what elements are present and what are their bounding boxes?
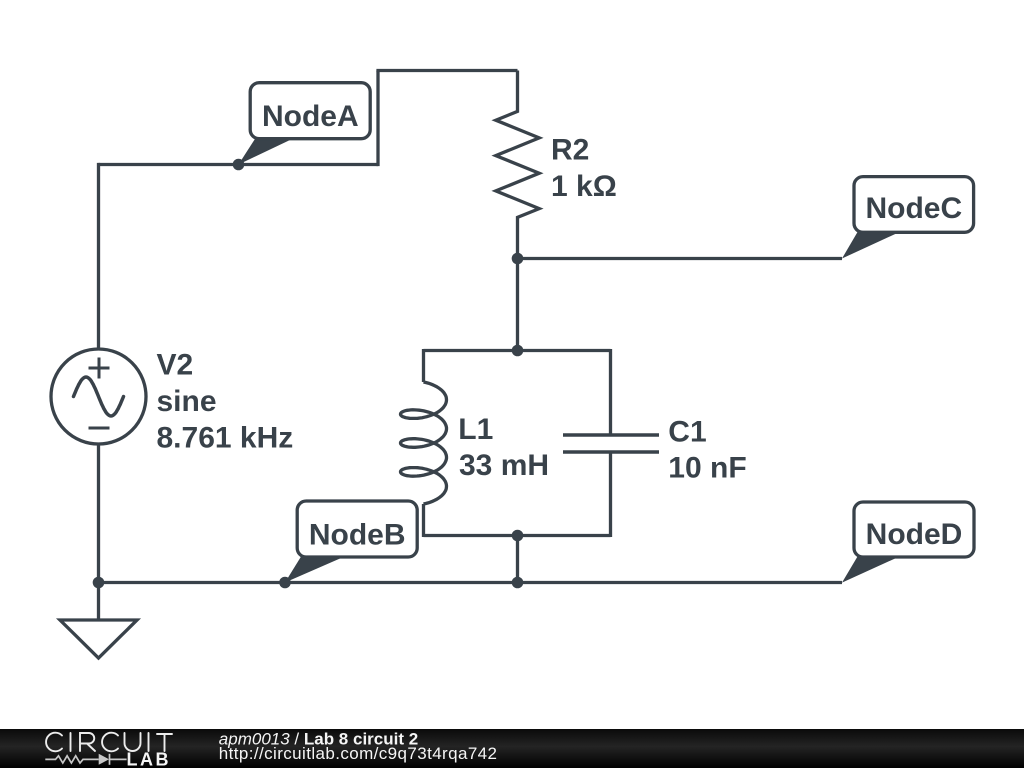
resistor R2 (496, 71, 539, 259)
svg-text:10 nF: 10 nF (668, 452, 746, 485)
svg-text:NodeB: NodeB (309, 519, 406, 552)
label L1 value (458, 413, 549, 482)
svg-text:NodeD: NodeD (866, 518, 963, 551)
node D flag (842, 502, 974, 583)
svg-text:sine: sine (157, 385, 217, 418)
label V2 value (157, 348, 294, 454)
junction dot bus center (512, 577, 524, 589)
junction dot tank top (512, 345, 524, 357)
wire tank bottom (424, 534, 611, 537)
label R2 value (551, 134, 617, 203)
wire riser NodeA to top (376, 71, 379, 167)
wire tank top (424, 349, 611, 352)
wire NodeC run (518, 257, 843, 260)
wire top run to R2 (376, 69, 517, 72)
junction dot ground (93, 577, 105, 589)
node B junction dot (279, 577, 291, 589)
label C1 value (668, 415, 746, 484)
svg-text:NodeC: NodeC (865, 192, 962, 225)
svg-text:LAB: LAB (127, 750, 172, 768)
logo mini schematic (45, 754, 126, 765)
svg-text:NodeA: NodeA (262, 100, 359, 133)
wire NodeA horizontal (99, 163, 379, 166)
ground (60, 583, 137, 659)
junction dot tank bottom (512, 530, 524, 542)
svg-text:http://circuitlab.com/c9q73t4r: http://circuitlab.com/c9q73t4rqa742 (219, 744, 498, 763)
voltage source V2 (51, 349, 146, 444)
svg-text:33 mH: 33 mH (459, 449, 549, 482)
junction dot R2/NodeC (512, 253, 524, 265)
logo CIRCUIT wordmark (46, 733, 172, 752)
svg-text:C1: C1 (668, 415, 706, 448)
wire left vertical V2 bottom (97, 444, 100, 583)
capacitor C1 (563, 349, 659, 537)
wire R2 to tank top (516, 259, 519, 351)
svg-text:1 kΩ: 1 kΩ (551, 170, 617, 203)
wire left vertical V2 top (97, 163, 100, 349)
node A junction dot (233, 159, 245, 171)
svg-text:R2: R2 (551, 134, 589, 167)
logo diode symbol (99, 754, 109, 765)
wire bottom bus (99, 581, 843, 584)
node C flag (842, 177, 974, 259)
node B flag (285, 501, 417, 583)
footer bar (0, 729, 1024, 768)
node A flag (239, 83, 371, 165)
svg-text:8.761 kHz: 8.761 kHz (157, 421, 294, 454)
wire tank to bus (516, 536, 519, 583)
svg-text:V2: V2 (157, 348, 194, 381)
svg-text:L1: L1 (458, 413, 493, 446)
inductor L1 (401, 349, 447, 537)
